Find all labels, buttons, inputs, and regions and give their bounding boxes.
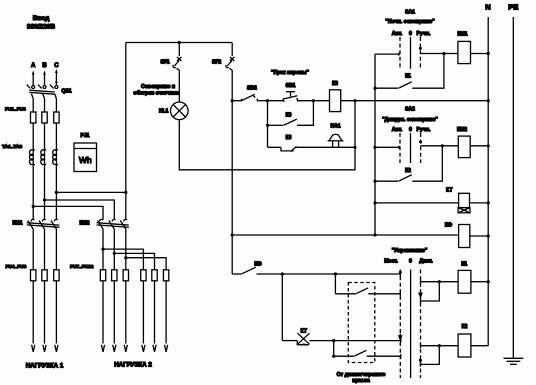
wire SA1 right stub to KM1 coil bbox=[420, 53, 458, 55]
junction box contact1 branch bbox=[334, 272, 337, 275]
SECTION: selectors bbox=[232, 3, 523, 365]
wire left drop to contact rows bbox=[267, 101, 269, 148]
wire SA2 left stub bbox=[375, 146, 399, 149]
junction K1 bypass right bbox=[442, 52, 445, 55]
wire KM1 pole2 down bbox=[44, 229, 46, 270]
CT TA1 bbox=[30, 150, 35, 165]
junction box contact2 branch bbox=[332, 339, 335, 342]
fuse FU5 bbox=[42, 270, 47, 281]
net N bbox=[485, 3, 490, 346]
wire C below fuse bbox=[55, 123, 57, 192]
contact K3 holding bbox=[268, 101, 314, 126]
svg-text:КМ1: КМ1 bbox=[458, 32, 468, 38]
junction contact2 left bbox=[332, 355, 335, 358]
wire KM2 pole1 down bbox=[102, 229, 103, 270]
ground bbox=[504, 358, 524, 364]
svg-text:0: 0 bbox=[409, 127, 412, 133]
selector SA2 labels bbox=[382, 107, 438, 133]
remote contact row 1 bbox=[335, 274, 400, 296]
wire B below fuse bbox=[44, 123, 46, 200]
wire bus C to KM2 bbox=[56, 191, 125, 193]
wire KM2 coil to N bbox=[470, 145, 488, 147]
junction N at KT bbox=[487, 201, 490, 204]
svg-text:КМ2: КМ2 bbox=[80, 221, 90, 227]
svg-text:PE: PE bbox=[508, 3, 518, 12]
wire KM2 pole3 down bbox=[125, 229, 127, 270]
svg-text:FU1..FU3: FU1..FU3 bbox=[5, 107, 26, 113]
relay deck K1 wires bbox=[421, 280, 459, 304]
svg-text:N: N bbox=[485, 3, 490, 12]
relay coil K1 bbox=[458, 262, 471, 293]
svg-text:КМ2: КМ2 bbox=[457, 127, 467, 133]
svg-text:"Пуск сирены": "Пуск сирены" bbox=[271, 70, 310, 76]
wire load1 line3 bbox=[55, 281, 58, 352]
wire feed line from top to KM2 pole bbox=[125, 43, 127, 220]
junction N-return at x355 bbox=[353, 99, 356, 102]
svg-text:К2: К2 bbox=[405, 168, 411, 174]
wire SB1 to K3 coil bbox=[298, 100, 330, 102]
svg-text:НА1: НА1 bbox=[330, 123, 340, 129]
svg-text:Авт.: Авт. bbox=[392, 31, 403, 37]
wire drop to contact2 bbox=[333, 341, 335, 357]
junction SB1 input bbox=[266, 99, 269, 102]
wire SF2 drop to KF row bbox=[231, 101, 233, 274]
relay coil KM1 bbox=[458, 32, 471, 64]
wire bottom bus bbox=[232, 234, 459, 236]
junction N at K1 bbox=[487, 280, 490, 283]
svg-text:B: B bbox=[42, 63, 47, 69]
fuse FU10 bbox=[141, 270, 146, 281]
junction phase A to bus bbox=[32, 205, 35, 208]
svg-text:пульта: пульта bbox=[352, 378, 370, 384]
wire phase A vertical bbox=[32, 99, 34, 112]
svg-text:HL1: HL1 bbox=[159, 109, 169, 115]
arrow Дист deck1 bbox=[419, 291, 422, 297]
fuse FU8 bbox=[112, 270, 117, 281]
junction KM2 pole3 branch bbox=[124, 256, 127, 259]
wire load2 line6 bbox=[165, 281, 168, 352]
fuse FU2 bbox=[42, 112, 47, 123]
wire to SB1 bbox=[268, 100, 285, 102]
relay coil K3 bbox=[330, 81, 341, 112]
contact KF bbox=[232, 261, 400, 276]
svg-text:SF2: SF2 bbox=[212, 60, 221, 66]
node A bbox=[31, 63, 36, 85]
bell HA1 bbox=[328, 123, 344, 147]
wire K2 coil to N bbox=[471, 345, 488, 347]
wire KF coil to N bbox=[470, 235, 488, 237]
contact K3 break bbox=[268, 135, 356, 152]
junction N at KM1 bbox=[487, 52, 490, 55]
svg-text:QS1: QS1 bbox=[62, 89, 72, 95]
junction bus C at feed line bbox=[124, 191, 127, 194]
wire load2 line5 bbox=[153, 281, 156, 352]
svg-text:К1: К1 bbox=[405, 74, 411, 80]
node C bbox=[54, 63, 59, 86]
wire load2 line2 bbox=[113, 281, 116, 352]
svg-text:К3: К3 bbox=[332, 81, 338, 87]
wire SA1 left stub bbox=[375, 53, 399, 56]
switch QS1 bbox=[27, 85, 72, 99]
label От диспетчерского пульта bbox=[337, 372, 386, 384]
wire load2 line4 bbox=[142, 281, 145, 352]
svg-text:К1: К1 bbox=[461, 262, 467, 268]
svg-text:SF1: SF1 bbox=[161, 60, 170, 66]
wire load2 line3 bbox=[124, 281, 127, 352]
junction K2 deck bbox=[438, 344, 441, 347]
svg-text:КФ: КФ bbox=[445, 223, 453, 229]
wire KM1 coil to N bbox=[471, 53, 489, 55]
svg-text:ТА1..ТА3: ТА1..ТА3 bbox=[2, 144, 23, 150]
svg-text:Дист.: Дист. bbox=[419, 259, 433, 265]
node B bbox=[42, 63, 47, 85]
wire top feed horizontal bbox=[126, 42, 232, 44]
junction SF1 tap bbox=[178, 41, 181, 44]
relay coil KT bbox=[446, 188, 470, 213]
wire load1 line2 bbox=[43, 281, 46, 352]
junction SF2 bottom bbox=[231, 99, 234, 102]
junction Дист deck2 mark bbox=[419, 359, 422, 362]
wire drop to KT row bbox=[281, 274, 283, 341]
selector Управление labels bbox=[384, 248, 433, 265]
lamp HL1 bbox=[159, 102, 188, 120]
button SB1 bbox=[283, 83, 298, 102]
selector SA2 position lines bbox=[400, 133, 422, 163]
svg-text:КТ: КТ bbox=[301, 329, 307, 335]
svg-text:обогрев счетчика: обогрев счетчика bbox=[133, 89, 178, 96]
fuse FU11 bbox=[152, 270, 157, 281]
wire bus B to KM2 bbox=[45, 200, 115, 220]
wire load2 line1 bbox=[101, 281, 104, 352]
fuse FU9 bbox=[123, 270, 128, 281]
wire KM1 pole3 down bbox=[55, 229, 57, 270]
svg-text:SA1: SA1 bbox=[405, 10, 415, 16]
svg-text:КФ: КФ bbox=[254, 261, 262, 267]
junction middle row bbox=[266, 124, 269, 127]
contactor KM1 bbox=[13, 219, 60, 229]
wire C to KM1 bbox=[55, 192, 57, 219]
svg-text:Авт.: Авт. bbox=[392, 127, 403, 133]
wire A below fuse bbox=[32, 123, 34, 206]
junction phase B to bus bbox=[43, 198, 46, 201]
wire phase C vertical bbox=[55, 99, 57, 112]
contactor KM2 bbox=[80, 219, 129, 229]
selector Управление position lines bbox=[400, 270, 420, 379]
meter PJ1 bbox=[74, 133, 97, 172]
junction K1 row bbox=[373, 87, 376, 90]
svg-text:Ввод: Ввод bbox=[33, 15, 50, 22]
wire KT coil to N bbox=[470, 202, 489, 204]
junction bottom bus tap bbox=[231, 233, 234, 236]
node Ввод 380/220В label bbox=[27, 15, 55, 31]
junction KT branch bbox=[281, 272, 284, 275]
junction KM2 pole1 branch bbox=[101, 248, 104, 251]
SECTION: power input bbox=[2, 15, 169, 370]
junction K1 deck bbox=[438, 280, 441, 283]
junction K2 row bbox=[373, 180, 376, 183]
wire KM2 pole2 down bbox=[113, 229, 115, 270]
svg-text:"Ночн. освещение": "Ночн. освещение" bbox=[385, 19, 435, 25]
svg-text:Ручн.: Ручн. bbox=[417, 31, 431, 37]
svg-text:FU4..FU6: FU4..FU6 bbox=[6, 264, 27, 270]
wire KT coil feed bbox=[375, 202, 459, 204]
fuse FU3 bbox=[54, 112, 59, 123]
junction bell row at x355 bbox=[353, 146, 356, 149]
breaker SF2 bbox=[212, 43, 234, 101]
svg-text:К3: К3 bbox=[286, 135, 292, 141]
wire SA2 right stub to KM2 coil bbox=[421, 145, 459, 147]
fuse FU7 bbox=[100, 270, 105, 281]
svg-text:SB2: SB2 bbox=[247, 86, 257, 92]
junction K2 bypass right bbox=[441, 144, 444, 147]
fuse FU4 bbox=[31, 270, 36, 281]
junction Мест top mark bbox=[399, 271, 402, 274]
svg-text:"Дежурн. освещение": "Дежурн. освещение" bbox=[382, 117, 438, 123]
svg-text:"Управление": "Управление" bbox=[392, 248, 428, 254]
wire lamp return bbox=[179, 101, 355, 170]
junction KM2 pole2 branch bbox=[113, 252, 116, 255]
junction N at bus bbox=[487, 99, 490, 102]
svg-text:0: 0 bbox=[409, 31, 412, 37]
contact KT timed bbox=[282, 329, 401, 346]
switch SB2 bbox=[232, 86, 267, 102]
wire branch pole1 to FU10 bbox=[103, 249, 143, 270]
arrow Мест at KT row bbox=[399, 334, 402, 340]
wire L feed vertical x375 bbox=[374, 54, 376, 235]
svg-text:К2: К2 bbox=[462, 324, 468, 330]
svg-text:PJ1: PJ1 bbox=[81, 133, 90, 139]
junction phase C to bus bbox=[55, 191, 58, 194]
CT TA2 bbox=[41, 150, 46, 165]
contact K2 bbox=[375, 146, 442, 181]
svg-text:К3: К3 bbox=[286, 113, 292, 119]
svg-text:SA2: SA2 bbox=[405, 107, 415, 113]
svg-text:От диспетчерского: От диспетчерского bbox=[337, 372, 386, 378]
svg-text:КТ: КТ bbox=[446, 188, 452, 194]
wire KM1 pole1 down bbox=[32, 229, 34, 270]
svg-text:0: 0 bbox=[409, 259, 412, 265]
wire B to KM1 bbox=[44, 200, 46, 220]
CT TA3 bbox=[53, 150, 58, 165]
fuse FU1 bbox=[31, 112, 36, 123]
svg-text:НАГРУЗКА 1: НАГРУЗКА 1 bbox=[26, 363, 64, 370]
SECTION: siren bbox=[231, 70, 489, 152]
relay coil K2 bbox=[458, 324, 471, 357]
breaker SF1 bbox=[161, 43, 182, 103]
contact K1 bbox=[375, 54, 444, 89]
remote contact row 2 bbox=[334, 350, 401, 358]
junction N at KM2 bbox=[487, 144, 490, 147]
net PE bbox=[508, 3, 518, 359]
label lamp purpose bbox=[133, 84, 178, 97]
wire branch pole3 to FU12 bbox=[126, 258, 166, 270]
wire bus A to KM2 bbox=[33, 206, 103, 219]
relay coil KF bbox=[445, 223, 470, 248]
wire phase B vertical bbox=[44, 99, 46, 112]
svg-text:НАГРУЗКА 2: НАГРУЗКА 2 bbox=[114, 362, 152, 369]
svg-text:380/220В: 380/220В bbox=[27, 24, 55, 31]
svg-text:SB1: SB1 bbox=[286, 83, 296, 89]
svg-text:Wh: Wh bbox=[79, 155, 92, 165]
SECTION: bottom control bbox=[231, 101, 490, 384]
junction bottom bus bbox=[373, 233, 376, 236]
junction K3 holding branch bbox=[312, 99, 315, 102]
wire K1 coil to N bbox=[471, 281, 488, 283]
svg-text:Освещение и: Освещение и bbox=[141, 84, 175, 90]
wire K3 coil to N bbox=[341, 100, 489, 102]
junction SA2 stub bbox=[373, 146, 376, 149]
svg-text:Ручн.: Ручн. bbox=[417, 127, 431, 133]
selector SA1 labels bbox=[385, 10, 435, 37]
svg-text:FU7..FU12: FU7..FU12 bbox=[70, 264, 94, 270]
wire branch pole2 to FU11 bbox=[114, 253, 154, 269]
relay coil KM2 bbox=[457, 127, 470, 158]
SECTION: lamp control bbox=[126, 41, 357, 170]
svg-text:Мест.: Мест. bbox=[384, 259, 398, 265]
junction KT wire bbox=[373, 201, 376, 204]
svg-text:КМ1: КМ1 bbox=[13, 221, 23, 227]
svg-text:A: A bbox=[31, 63, 36, 69]
relay deck K2 wires bbox=[421, 344, 459, 367]
wire load1 line1 bbox=[32, 281, 35, 352]
fuse FU12 bbox=[163, 270, 168, 281]
wire A to KM1 bbox=[32, 206, 34, 219]
junction N at KF bbox=[487, 234, 490, 237]
fuse FU6 bbox=[54, 270, 59, 281]
dashed box dispatcher bbox=[348, 283, 375, 363]
selector SA1 position lines bbox=[400, 37, 422, 69]
svg-text:C: C bbox=[54, 63, 59, 69]
